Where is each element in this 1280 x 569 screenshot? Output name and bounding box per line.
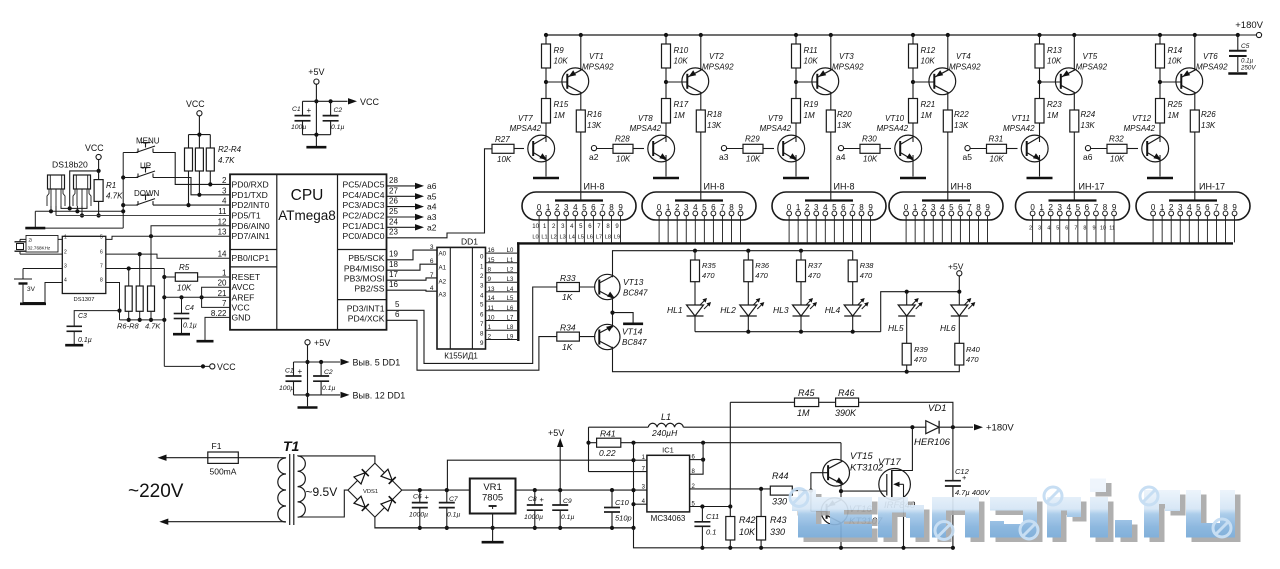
wire R32 to base VT12 (1127, 148, 1138, 150)
svg-text:~9.5V: ~9.5V (306, 485, 338, 499)
resistor R9 10K (544, 33, 548, 37)
wire cap bottoms (303, 134, 331, 136)
svg-text:8.22: 8.22 (211, 309, 227, 318)
node boost feed (631, 458, 635, 462)
resistor R15 1M (542, 99, 551, 124)
wires SPI pins 19 18 17 16 to DD1 (387, 250, 438, 260)
wire emitter VT4 to rail (946, 33, 950, 37)
wire lower ground rail (634, 528, 953, 548)
svg-text:PD0/RXD: PD0/RXD (232, 179, 269, 189)
sensor DS18b20 body (74, 175, 91, 189)
wire base lead VT6 (1160, 81, 1181, 83)
svg-text:a4: a4 (836, 152, 846, 162)
svg-text:PD6/AIN0: PD6/AIN0 (232, 221, 270, 231)
wire boost feed from C7 (446, 489, 449, 491)
svg-text:F1: F1 (212, 441, 222, 451)
LED HL4 (844, 305, 861, 316)
capacitor C2 bottom 0.1u (320, 362, 322, 376)
svg-text:10K: 10K (1110, 155, 1125, 164)
svg-text:R41: R41 (600, 429, 616, 439)
svg-text:32.768KHz: 32.768KHz (28, 246, 51, 251)
svg-text:+: + (425, 493, 430, 502)
transistor VT11 MPSA42 (1021, 135, 1048, 162)
wire VT13 emitter to VT14 collector (612, 297, 614, 328)
resistor R11 10K (794, 33, 798, 37)
svg-text:MPSA92: MPSA92 (832, 63, 864, 72)
wire R41 right row (621, 442, 841, 444)
nixie tube ИН-8 (digit 2) (642, 192, 756, 220)
svg-text:a5: a5 (963, 152, 973, 162)
svg-text:1: 1 (546, 203, 551, 212)
svg-text:VT10: VT10 (885, 114, 905, 123)
regulator VR1 7805 (470, 479, 516, 514)
svg-text:VT13: VT13 (623, 277, 644, 287)
capacitor C9 0.1u (558, 488, 562, 492)
ground of C4 (181, 319, 183, 334)
wire base lead VT4 (913, 81, 934, 83)
svg-text:L9: L9 (507, 335, 514, 341)
resistor R32 10K (1107, 144, 1127, 153)
svg-text:330: 330 (772, 497, 787, 507)
svg-text:DOWN: DOWN (134, 189, 160, 198)
diode VD1 HER106 (926, 421, 939, 434)
wire pin 5 PD3 to R33 (387, 287, 557, 363)
svg-text:R27: R27 (495, 135, 510, 144)
resistor R16 13K (576, 110, 585, 132)
svg-text:GND: GND (232, 312, 251, 322)
transistor VT8 MPSA42 (648, 135, 675, 162)
svg-text:8: 8 (480, 331, 484, 338)
wire R27 to base VT7 (514, 148, 524, 150)
resistor R21 1M (909, 99, 918, 124)
wire R46 to output node (859, 402, 953, 427)
node VCC pullups (197, 111, 202, 116)
svg-text:10K: 10K (863, 155, 878, 164)
transistor VT10 MPSA42 (895, 135, 922, 162)
svg-text:C9: C9 (563, 498, 572, 505)
resistor R20 13K (826, 110, 835, 132)
wire sensor VDD row (61, 206, 87, 208)
resistor R41 0.22 (589, 442, 597, 444)
svg-text:13: 13 (488, 286, 496, 293)
wire VR1 output row (516, 489, 647, 491)
node +5V terminal bottom (305, 340, 310, 345)
svg-text:R2-R4: R2-R4 (218, 145, 242, 154)
svg-text:ИН-17: ИН-17 (1199, 182, 1225, 192)
svg-text:1M: 1M (804, 111, 815, 120)
watermark period (1121, 525, 1138, 543)
svg-text:VCC: VCC (186, 99, 205, 109)
node +5V output arrow (559, 446, 561, 490)
svg-text:250V: 250V (1240, 65, 1256, 72)
svg-text:MC34063: MC34063 (651, 514, 686, 523)
svg-text:7: 7 (1074, 226, 1077, 232)
svg-text:3: 3 (1178, 203, 1183, 212)
svg-text:470: 470 (808, 271, 821, 280)
svg-text:15: 15 (488, 257, 496, 264)
svg-text:5: 5 (1056, 226, 1059, 232)
svg-text:24: 24 (389, 217, 398, 226)
ground of CPU GND (197, 340, 214, 343)
wire HL2 to bottom rail (747, 316, 749, 332)
cathode bus vertical (517, 242, 519, 341)
wire VCC vertical (163, 269, 165, 367)
wire R44 to bases (792, 490, 811, 492)
svg-text:2: 2 (805, 203, 810, 212)
svg-text:a3: a3 (719, 152, 729, 162)
svg-text:L6: L6 (507, 306, 514, 312)
wire R30 to base VT10 (880, 148, 891, 150)
svg-text:RESET: RESET (232, 272, 261, 282)
svg-text:3: 3 (64, 264, 67, 270)
svg-text:1M: 1M (1047, 111, 1058, 120)
battery GB1 3V (23, 268, 62, 270)
resistor R17 1M (662, 99, 671, 124)
svg-text:10: 10 (1100, 226, 1106, 232)
wire R33 to base VT13 (579, 286, 595, 288)
wire emitter VT1 to rail (579, 33, 583, 37)
svg-text:VCC: VCC (360, 97, 380, 107)
svg-text:9: 9 (618, 203, 623, 212)
svg-text:HL1: HL1 (667, 305, 683, 315)
node terminal a5 (965, 146, 970, 151)
svg-text:470: 470 (860, 271, 873, 280)
watermark letter r (1053, 502, 1087, 543)
wire LED return riser (881, 292, 960, 332)
svg-text:9: 9 (868, 203, 873, 212)
transistor VT7 MPSA42 (528, 135, 555, 162)
svg-text:+180V: +180V (1235, 20, 1263, 31)
svg-text:PC1/ADC1: PC1/ADC1 (342, 221, 384, 231)
svg-text:13K: 13K (587, 121, 602, 130)
wire a4 to R30 (844, 148, 860, 150)
svg-text:R45: R45 (798, 388, 816, 398)
wire pin 5 row (690, 506, 731, 508)
resistor R28 10K (613, 144, 633, 153)
svg-text:19: 19 (389, 250, 398, 259)
svg-text:4: 4 (693, 203, 698, 212)
svg-text:0.1µ: 0.1µ (1241, 58, 1254, 65)
svg-text:R34: R34 (560, 323, 576, 333)
svg-text:1: 1 (796, 203, 801, 212)
svg-text:9: 9 (985, 203, 990, 212)
wire R45 R46 (819, 401, 836, 403)
capacitor C2 0.1u (330, 101, 332, 115)
svg-text:8: 8 (100, 278, 103, 284)
svg-text:9: 9 (1092, 226, 1095, 232)
wire L1 to VD1 (683, 426, 926, 428)
svg-text:500mA: 500mA (210, 467, 237, 477)
svg-text:MPSA42: MPSA42 (1003, 124, 1035, 133)
svg-text:MPSA42: MPSA42 (760, 124, 792, 133)
svg-text:a3: a3 (427, 212, 437, 222)
svg-text:C2: C2 (334, 107, 343, 114)
wire R19 to collector VT9 (795, 123, 797, 137)
node emitter junction (610, 311, 614, 315)
svg-text:VT8: VT8 (638, 114, 653, 123)
resistor R35 470 (693, 249, 697, 253)
svg-text:5: 5 (1076, 203, 1081, 212)
wire emitters junction (840, 484, 842, 500)
svg-text:+5V: +5V (948, 262, 964, 272)
svg-text:VT12: VT12 (1132, 114, 1152, 123)
svg-text:3: 3 (222, 186, 227, 195)
svg-text:R37: R37 (808, 261, 823, 270)
svg-text:7: 7 (850, 203, 855, 212)
svg-text:0: 0 (1030, 203, 1035, 212)
svg-text:R6-R8: R6-R8 (117, 322, 140, 331)
svg-text:VT6: VT6 (1203, 52, 1218, 61)
svg-text:7: 7 (1094, 203, 1099, 212)
svg-text:0: 0 (537, 203, 542, 212)
svg-text:3: 3 (430, 244, 434, 251)
anode bar (555, 199, 603, 201)
svg-text:16: 16 (389, 280, 398, 289)
wire emitter VT5 to rail (1072, 33, 1076, 37)
transistor VT5 MPSA92 (1055, 68, 1082, 95)
svg-text:1: 1 (480, 263, 484, 270)
svg-text:470: 470 (755, 271, 768, 280)
svg-text:6: 6 (711, 203, 716, 212)
svg-text:VCC: VCC (232, 302, 250, 312)
resistor R33 1K (557, 283, 580, 292)
svg-text:L0: L0 (532, 235, 538, 241)
svg-text:VDS1: VDS1 (363, 489, 378, 495)
wire R1 to data row (98, 201, 100, 215)
capacitor C7 0.1u (445, 488, 449, 492)
svg-text:MPSA92: MPSA92 (1076, 63, 1108, 72)
transistor VT6 MPSA92 (1176, 68, 1203, 95)
svg-text:0: 0 (480, 254, 484, 261)
svg-text:L6: L6 (587, 235, 593, 241)
resistor R46 390K (836, 398, 859, 407)
svg-text:PC2/ADC2: PC2/ADC2 (342, 211, 384, 221)
svg-text:HL4: HL4 (825, 305, 841, 315)
svg-text:1: 1 (488, 324, 492, 331)
resistor R14 10K (1158, 33, 1162, 37)
wire base lead VT3 (796, 81, 817, 83)
svg-text:5: 5 (582, 203, 587, 212)
svg-text:C6: C6 (413, 494, 422, 501)
wire LED top rail (695, 250, 853, 252)
ground of VT7 (533, 177, 559, 180)
svg-text:100µ: 100µ (279, 385, 294, 392)
svg-text:11: 11 (488, 305, 495, 312)
svg-text:+: + (540, 495, 545, 504)
svg-text:8: 8 (729, 203, 734, 212)
svg-text:L8: L8 (507, 325, 514, 331)
svg-text:T1: T1 (283, 438, 300, 454)
wire secondary bottom (298, 490, 348, 517)
svg-text:PD5/T1: PD5/T1 (232, 211, 261, 221)
svg-text:100µ: 100µ (291, 124, 306, 131)
svg-text:+5V: +5V (548, 428, 564, 438)
svg-text:BC847: BC847 (623, 289, 648, 298)
svg-text:13K: 13K (1081, 121, 1096, 130)
nixie tube ИН-17 (digit 5) (1016, 192, 1130, 220)
svg-text:DD1: DD1 (461, 237, 478, 247)
svg-text:C1: C1 (285, 368, 294, 375)
wire LED bottom rail (695, 331, 881, 333)
svg-text:6: 6 (1085, 203, 1090, 212)
svg-text:L9: L9 (614, 235, 620, 241)
svg-text:VT11: VT11 (1012, 114, 1031, 123)
svg-text:3: 3 (931, 203, 936, 212)
capacitor C3 0.1u (74, 311, 119, 326)
svg-text:16: 16 (488, 247, 496, 254)
svg-text:R24: R24 (1081, 110, 1096, 119)
svg-text:1000µ: 1000µ (524, 514, 543, 521)
wire AREF row (164, 296, 230, 298)
svg-text:14: 14 (488, 295, 496, 302)
svg-text:MPSA92: MPSA92 (949, 63, 981, 72)
wire HL4 to bottom rail (852, 316, 854, 332)
resistor R27 10K (492, 144, 514, 153)
svg-text:VR1: VR1 (483, 482, 501, 493)
svg-text:7: 7 (720, 203, 725, 212)
resistor R1 4.7K (98, 171, 100, 180)
wire emitter VT10 to ground (912, 155, 914, 177)
svg-text:27: 27 (389, 186, 398, 195)
svg-text:5: 5 (480, 302, 484, 309)
svg-text:5: 5 (832, 203, 837, 212)
svg-text:1M: 1M (554, 111, 565, 120)
svg-text:2: 2 (480, 273, 484, 280)
svg-text:ATmega8: ATmega8 (278, 208, 336, 223)
wire IC1 pin4 (634, 503, 647, 505)
svg-text:a2: a2 (427, 222, 437, 232)
CPU U1 ATmega8 (230, 174, 387, 329)
wire collector VT5 (1073, 93, 1075, 111)
svg-text:10: 10 (532, 224, 539, 230)
capacitor C5 (1236, 33, 1240, 37)
watermark badges (790, 489, 808, 507)
capacitor C10 510p (610, 488, 614, 492)
wire mains bottom (168, 521, 284, 523)
svg-text:6: 6 (1065, 226, 1068, 232)
svg-text:VT15: VT15 (850, 451, 873, 462)
resistor R13 10K (1037, 33, 1041, 37)
svg-text:ИН-8: ИН-8 (834, 182, 855, 192)
svg-text:L5: L5 (507, 296, 514, 302)
ground of sensors (34, 211, 36, 227)
anode bar (805, 199, 853, 201)
wire emitter VT7 to ground (545, 155, 547, 177)
svg-text:L4: L4 (507, 287, 514, 293)
svg-text:0.1µ: 0.1µ (78, 337, 92, 344)
wire a2 to R28 (597, 148, 613, 150)
svg-text:+5V: +5V (314, 338, 330, 348)
svg-text:HL5: HL5 (888, 323, 904, 333)
wire R31 to base VT11 (1007, 148, 1018, 150)
svg-text:23: 23 (389, 228, 398, 237)
svg-text:5: 5 (395, 300, 400, 309)
ground of bottom cluster (307, 395, 309, 406)
resistor R24 13K (1070, 110, 1079, 132)
svg-text:R19: R19 (804, 100, 819, 109)
wire button common (123, 152, 138, 154)
svg-text:2: 2 (64, 249, 67, 255)
wire ground rail PSU (375, 527, 634, 529)
wire collector VT1 (580, 93, 582, 111)
svg-text:К155ИД1: К155ИД1 (444, 352, 478, 361)
svg-text:a5: a5 (427, 191, 437, 201)
svg-text:1M: 1M (921, 111, 932, 120)
svg-text:6: 6 (591, 203, 596, 212)
svg-text:R26: R26 (1201, 110, 1216, 119)
wire R28 to base VT8 (633, 148, 644, 150)
svg-text:R31: R31 (989, 135, 1004, 144)
svg-text:CPU: CPU (291, 187, 324, 204)
svg-text:9: 9 (1112, 203, 1117, 212)
wire R36 to LED (747, 282, 749, 305)
anode bar (1049, 199, 1097, 201)
LED HL1 (687, 305, 704, 316)
node base of VT6 (1158, 80, 1162, 84)
svg-text:R14: R14 (1168, 46, 1183, 55)
svg-text:R13: R13 (1047, 46, 1062, 55)
converter IC1 MC34063 (647, 455, 690, 512)
node +180V terminal (1238, 34, 1256, 36)
ground of C1 C2 (306, 146, 326, 149)
node terminal a4 (838, 146, 843, 151)
svg-text:4: 4 (823, 203, 828, 212)
resistor R43 330 (759, 487, 763, 491)
svg-text:PC0/ADC0: PC0/ADC0 (342, 231, 384, 241)
wire sensor ground row (35, 210, 123, 212)
resistor R34 1K (557, 332, 580, 341)
wire DS1307 pin7 row (106, 268, 165, 270)
wires R2-R4 to CPU pins (209, 171, 211, 184)
transistor VT13 BC847 (595, 274, 620, 299)
LED HL3 (793, 305, 810, 316)
svg-text:R33: R33 (560, 273, 576, 283)
node VT17 drain (910, 425, 914, 429)
transistor VT2 MPSA92 (682, 68, 709, 95)
svg-text:PD7/AIN1: PD7/AIN1 (232, 231, 270, 241)
svg-text:0.1: 0.1 (706, 528, 716, 537)
svg-text:9: 9 (488, 276, 492, 283)
node base of VT5 (1037, 80, 1041, 84)
resistor R10 10K (664, 33, 668, 37)
svg-text:10K: 10K (497, 155, 512, 164)
transistor VT17 IRF840 (879, 469, 911, 501)
svg-text:0.22: 0.22 (599, 448, 616, 458)
svg-text:MPSA92: MPSA92 (582, 63, 614, 72)
anode bar (675, 199, 723, 201)
wire anode of tube 3 (830, 132, 832, 200)
svg-text:ИН-8: ИН-8 (584, 182, 605, 192)
svg-text:12: 12 (218, 217, 227, 226)
wire R37 to LED (800, 282, 802, 305)
svg-text:R10: R10 (674, 46, 689, 55)
wire emitter VT2 to rail (699, 33, 703, 37)
svg-text:VD1: VD1 (928, 403, 946, 414)
wire L1 feed vertical (589, 471, 647, 473)
svg-text:R18: R18 (707, 110, 722, 119)
resistor R23 1M (1035, 99, 1044, 124)
svg-text:4: 4 (64, 278, 67, 284)
svg-text:18: 18 (389, 260, 398, 269)
sensor legs (76, 189, 78, 206)
wire cap bottoms 2 (294, 394, 322, 396)
svg-text:ZI: ZI (29, 238, 33, 243)
svg-text:390K: 390K (835, 408, 857, 418)
svg-text:2: 2 (555, 203, 560, 212)
node terminal a3 (721, 146, 726, 151)
svg-text:9: 9 (1232, 203, 1237, 212)
svg-text:25: 25 (389, 207, 398, 216)
